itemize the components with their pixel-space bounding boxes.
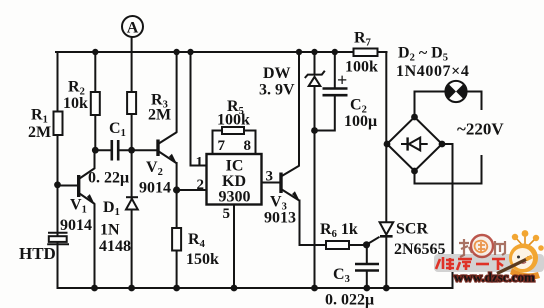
svg-text:1N: 1N	[100, 222, 120, 239]
junction C3 ground	[363, 285, 370, 292]
transistor V1	[79, 150, 95, 288]
wire V3 emitter to R6	[300, 201, 327, 246]
junction pin1 feed top rail	[187, 49, 193, 55]
junction bridge top vertex	[411, 114, 418, 121]
zener diode DW	[305, 71, 325, 86]
svg-text:DW: DW	[263, 65, 291, 82]
junction pin5 ground	[231, 285, 238, 292]
junction node DW/C2 bottom	[311, 127, 318, 134]
junction node V2 emitter/R4/pin2	[173, 186, 180, 193]
svg-text:A: A	[127, 20, 139, 37]
wire left rail R1/HTD branch	[57, 52, 59, 288]
capacitor C2	[323, 89, 348, 96]
svg-text:5: 5	[223, 206, 231, 222]
wire C1 node row	[95, 149, 112, 151]
svg-text:3: 3	[266, 169, 274, 185]
svg-text:100k: 100k	[345, 59, 378, 76]
svg-text:1: 1	[196, 155, 204, 171]
svg-text:100μ: 100μ	[344, 113, 377, 130]
svg-text:7: 7	[218, 138, 226, 154]
wire meter/R3/D1 branch	[131, 38, 133, 289]
svg-text:KD: KD	[222, 173, 246, 190]
svg-text:9014: 9014	[60, 217, 92, 234]
transistor V3	[281, 166, 300, 202]
svg-text:D2 ~ D5: D2 ~ D5	[398, 45, 448, 64]
capacitor C1	[112, 140, 118, 161]
svg-text:HTD: HTD	[19, 244, 56, 263]
wire bridge top vertex to lamp	[415, 92, 446, 118]
resistor R7	[354, 49, 378, 57]
thyristor SCR	[367, 222, 394, 244]
wire R7 right to bridge DC+ and SCR anode	[378, 52, 387, 222]
svg-text:1N4007×4: 1N4007×4	[396, 63, 469, 80]
resistor R1	[54, 112, 63, 136]
junction node R6/SCR gate/C3	[363, 241, 370, 248]
resistor R4	[172, 228, 181, 251]
svg-text:2M: 2M	[148, 107, 171, 124]
svg-text:SCR: SCR	[396, 221, 428, 238]
junction bridge right vertex DC-	[439, 141, 446, 148]
capacitor C3	[355, 264, 379, 271]
svg-text:9013: 9013	[264, 210, 296, 227]
wire IC pin3 to V3 base	[262, 182, 281, 184]
svg-text:150k: 150k	[186, 251, 219, 268]
SCR gate lead	[367, 237, 380, 245]
wire C3 leads	[366, 245, 368, 264]
junction bridge bottom vertex	[411, 168, 418, 175]
lamp	[445, 81, 467, 102]
wire bottom ground rail	[58, 144, 453, 288]
junction V1 emitter ground	[91, 285, 98, 292]
junction R4 ground	[173, 285, 180, 292]
junction R2 top rail	[92, 49, 98, 55]
wire C2 top lead	[334, 52, 336, 88]
bridge rectifier D2-D5	[387, 117, 442, 171]
resistor R6	[326, 241, 349, 249]
transistor V2	[158, 132, 177, 164]
wire C2 bottom lead to zener rail	[315, 96, 335, 131]
wire IC pin1 feed	[191, 52, 207, 166]
svg-text:9014: 9014	[139, 180, 171, 197]
wire IC pin5 to ground	[233, 205, 235, 289]
junction node R3/C1/V2 base/D1	[128, 147, 135, 154]
resistor R2	[91, 92, 100, 115]
resistor R3	[127, 92, 136, 114]
svg-text:IC: IC	[226, 158, 244, 175]
diode D1	[126, 197, 138, 209]
svg-text:100k: 100k	[217, 112, 250, 129]
resistor R5	[222, 127, 244, 134]
piezo sounder HTD	[47, 233, 69, 244]
svg-text:8: 8	[244, 138, 252, 154]
ammeter A	[122, 16, 143, 37]
wire IC pin2 feed	[177, 189, 207, 191]
wire zener DW branch	[314, 52, 316, 75]
wire top supply rail	[56, 51, 387, 53]
svg-text:www.dzsc.com: www.dzsc.com	[454, 270, 535, 285]
junction node R2/V1 collector/C1	[92, 147, 99, 154]
wire R2 branch	[94, 52, 96, 150]
svg-text:3. 9V: 3. 9V	[259, 82, 295, 99]
svg-text:0. 22μ: 0. 22μ	[88, 170, 129, 187]
wire V1 base	[58, 185, 78, 187]
watermark group (decorative)	[434, 230, 544, 284]
junction C2 top rail	[332, 49, 338, 55]
junction V2 collector top rail	[173, 49, 179, 55]
svg-text:2: 2	[197, 177, 205, 193]
junction DW top rail	[311, 49, 317, 55]
junction D1 ground	[128, 285, 135, 292]
IC U1 KD9300 box	[207, 154, 262, 205]
svg-text:4148: 4148	[99, 238, 131, 255]
junction DW ground	[311, 285, 318, 292]
wire R6 to gate node	[349, 244, 367, 246]
pin7/pin8 leads to R5	[213, 131, 256, 155]
junction node R1/V1 base/HTD	[54, 181, 61, 188]
svg-text:2M: 2M	[28, 124, 51, 141]
svg-text:R6 1k: R6 1k	[320, 221, 358, 240]
svg-text:10k: 10k	[63, 95, 88, 112]
wire V2 emitter / R4 rail	[176, 163, 178, 288]
wire AC source bottom stub to bridge bottom vertex	[415, 156, 482, 184]
wire V2 collector rail	[176, 52, 178, 132]
junction V3 collector top rail	[296, 49, 302, 55]
junction SCR cathode ground	[383, 285, 390, 292]
wire bridge DC- stub	[442, 143, 453, 145]
svg-text:9300: 9300	[219, 189, 251, 206]
svg-text:0. 022μ: 0. 022μ	[325, 292, 374, 308]
wire SCR cathode to ground rail	[385, 237, 387, 289]
wire V3 collector rail	[298, 52, 300, 165]
wire lamp right to AC source top stub	[467, 92, 482, 110]
svg-text:~220V: ~220V	[457, 120, 504, 139]
junction bridge left vertex DC+	[384, 141, 391, 148]
